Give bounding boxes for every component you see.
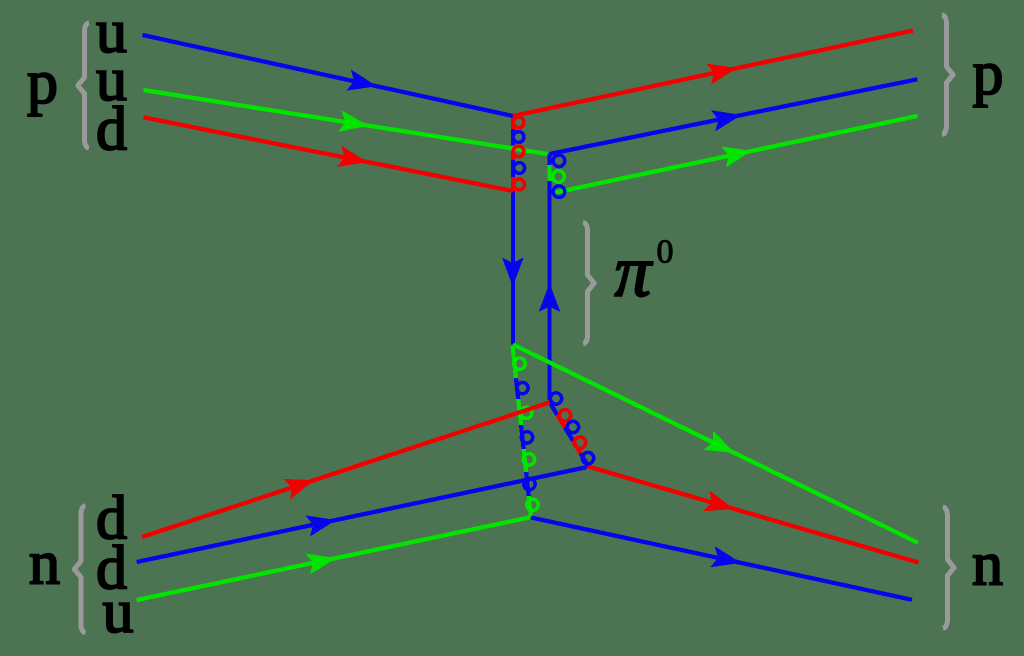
svg-text:p: p xyxy=(27,49,58,117)
svg-text:p: p xyxy=(973,40,1004,108)
svg-text:π: π xyxy=(615,231,654,312)
svg-text:u: u xyxy=(103,578,134,646)
svg-text:d: d xyxy=(96,96,127,164)
svg-text:n: n xyxy=(29,530,60,598)
svg-text:0: 0 xyxy=(657,234,674,271)
svg-text:n: n xyxy=(972,531,1003,599)
